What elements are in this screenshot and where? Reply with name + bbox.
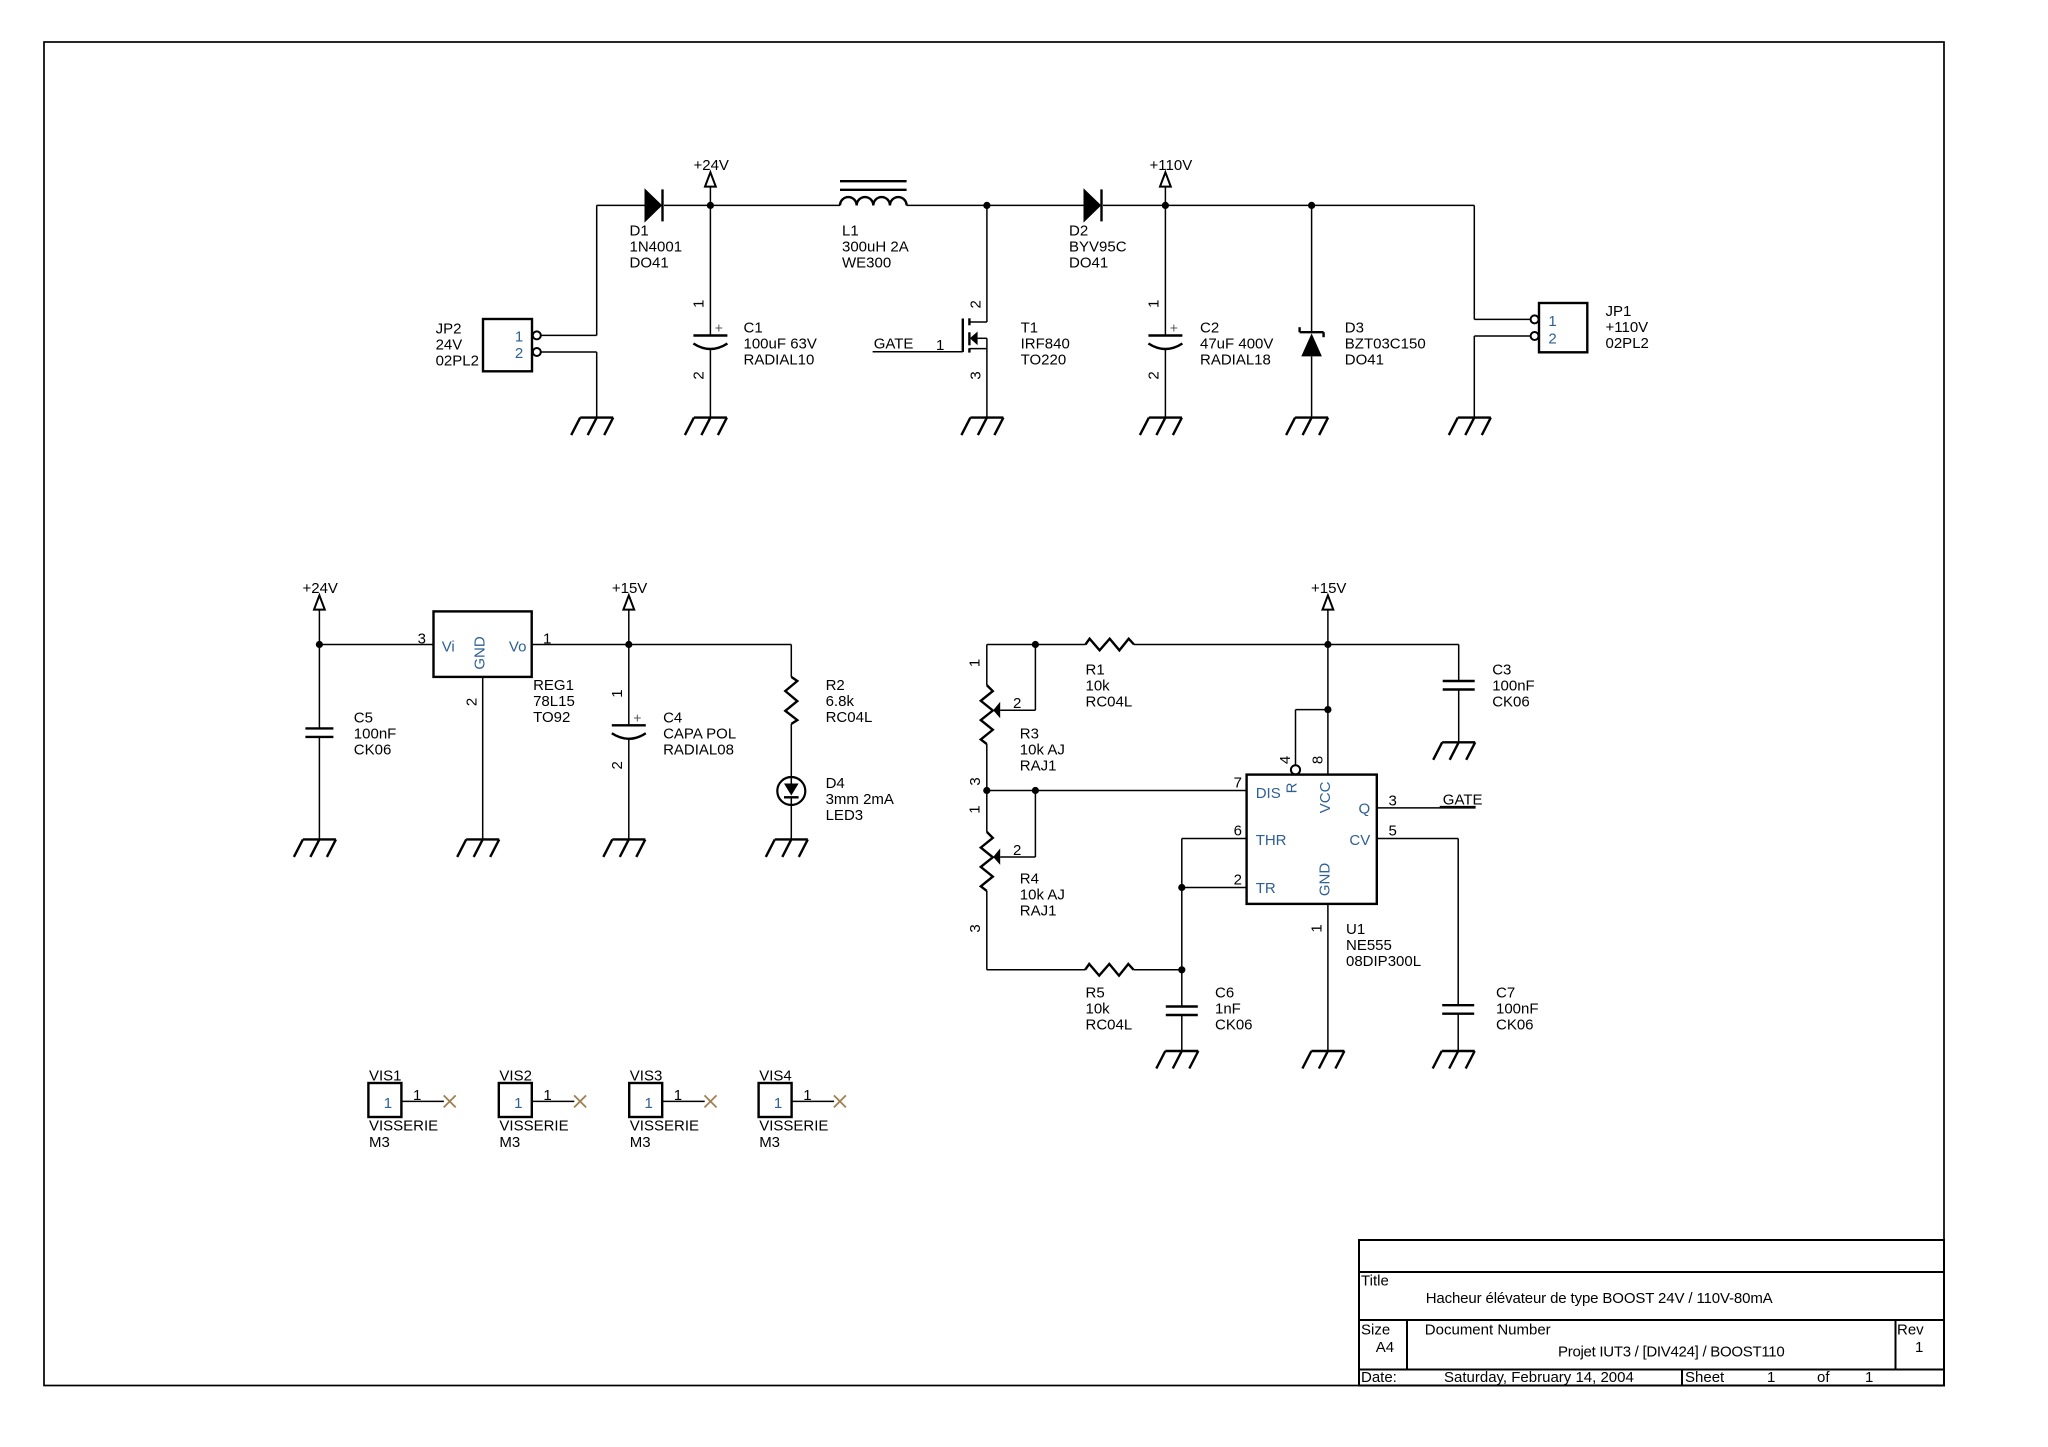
capacitor C1 — [691, 300, 728, 380]
svg-text:+24V: +24V — [302, 580, 337, 597]
wire JP2 pin2 down — [596, 352, 598, 418]
wire node to C1 — [709, 205, 711, 335]
diode D2 — [1084, 189, 1102, 221]
svg-text:NE555: NE555 — [1346, 937, 1392, 954]
wire REG1 Vo to R2 — [532, 644, 792, 646]
wire U1 GND pin1 — [1327, 904, 1329, 1051]
ground C5 — [294, 839, 336, 857]
resistor R5 — [1085, 964, 1134, 976]
wire C2 to ground — [1164, 349, 1166, 418]
svg-text:24V: 24V — [436, 337, 463, 354]
capacitor C6 — [1166, 1007, 1198, 1016]
wire source to ground — [986, 338, 988, 417]
capacitor C3 — [1443, 681, 1475, 690]
label C5 value — [354, 710, 397, 759]
svg-text:1: 1 — [936, 337, 944, 354]
wire R3 pin1 lead — [986, 645, 988, 686]
svg-text:M3: M3 — [630, 1134, 651, 1151]
svg-text:1N4001: 1N4001 — [630, 238, 683, 255]
svg-text:Hacheur élévateur de type BOOS: Hacheur élévateur de type BOOST 24V / 11… — [1426, 1290, 1773, 1307]
svg-text:2: 2 — [1146, 371, 1163, 379]
title block texts — [1361, 1273, 1924, 1386]
svg-text:6: 6 — [1234, 823, 1242, 840]
svg-text:JP2: JP2 — [436, 321, 462, 338]
svg-text:2: 2 — [609, 761, 626, 769]
wire TR pin2 — [1182, 887, 1247, 889]
svg-text:10k: 10k — [1086, 678, 1111, 695]
ground C2 — [1140, 418, 1182, 436]
wire node to C4 — [628, 645, 630, 726]
label D1 value — [630, 222, 683, 271]
svg-text:2: 2 — [464, 698, 481, 706]
label C2 value — [1200, 320, 1273, 369]
svg-text:C5: C5 — [354, 710, 373, 727]
svg-text:JP1: JP1 — [1606, 303, 1632, 320]
regulator REG1 port names — [442, 636, 527, 670]
junction T1 drain node — [983, 202, 990, 209]
svg-text:C1: C1 — [744, 320, 763, 337]
svg-text:2: 2 — [691, 371, 708, 379]
wire VCC pin8 — [1327, 645, 1329, 775]
ground C3 — [1433, 742, 1475, 760]
wire C1 to ground — [709, 349, 711, 418]
svg-text:VISSERIE: VISSERIE — [759, 1118, 828, 1135]
svg-text:TO92: TO92 — [533, 709, 570, 726]
svg-text:Vo: Vo — [509, 639, 527, 656]
wire R4 pin3 lead — [986, 891, 988, 970]
power +24V mid — [302, 580, 337, 644]
svg-text:U1: U1 — [1346, 921, 1365, 938]
diode D1 — [645, 189, 663, 221]
ic U1 pin4 reset — [1291, 710, 1328, 775]
junction C5 node — [316, 641, 323, 648]
svg-text:VCC: VCC — [1317, 781, 1334, 813]
label D4 value — [826, 775, 894, 824]
svg-text:A4: A4 — [1376, 1339, 1394, 1356]
ic U1 port names — [1256, 781, 1371, 897]
svg-text:1: 1 — [1915, 1339, 1923, 1356]
potentiometer R3 pin numbers — [966, 659, 1021, 786]
svg-text:GND: GND — [1317, 863, 1334, 897]
label C6 value — [1215, 985, 1253, 1034]
svg-text:Vi: Vi — [442, 639, 455, 656]
junction TR node — [1178, 884, 1185, 891]
svg-text:+: + — [715, 320, 723, 336]
wire JP1 pin2 to ground — [1473, 336, 1475, 418]
svg-text:100uF 63V: 100uF 63V — [744, 336, 817, 353]
svg-text:1: 1 — [1309, 924, 1326, 932]
svg-text:1: 1 — [966, 805, 983, 813]
svg-text:R3: R3 — [1020, 726, 1039, 743]
junction D3 node — [1308, 202, 1315, 209]
svg-text:1: 1 — [413, 1087, 421, 1104]
wire to REG1 Vi — [319, 644, 433, 646]
title block frame — [1359, 1240, 1944, 1386]
label R1 value — [1086, 662, 1133, 711]
svg-text:78L15: 78L15 — [533, 693, 575, 710]
svg-text:M3: M3 — [759, 1134, 780, 1151]
svg-text:1: 1 — [1548, 313, 1556, 330]
led D4 — [777, 777, 805, 805]
svg-text:1: 1 — [543, 1087, 551, 1104]
net label GATE right — [1440, 792, 1483, 809]
svg-text:5: 5 — [1389, 823, 1397, 840]
wire to R2 — [790, 645, 792, 677]
svg-text:Title: Title — [1361, 1273, 1389, 1290]
wire R3 pin3 lead — [986, 744, 988, 790]
wire node to C5 — [318, 645, 320, 729]
label C1 value — [744, 320, 817, 369]
svg-text:10k AJ: 10k AJ — [1020, 887, 1065, 904]
svg-text:C3: C3 — [1492, 662, 1511, 679]
svg-text:1: 1 — [609, 689, 626, 697]
wire C7 to ground — [1457, 1014, 1459, 1051]
ic U1 NE555 box — [1247, 775, 1377, 904]
svg-text:+15V: +15V — [1311, 580, 1346, 597]
wire JP2 pin2 — [541, 351, 597, 353]
svg-text:02PL2: 02PL2 — [436, 353, 479, 370]
svg-text:C7: C7 — [1496, 985, 1515, 1002]
wire node to D3 — [1311, 205, 1313, 332]
svg-text:LED3: LED3 — [826, 807, 864, 824]
svg-text:1nF: 1nF — [1215, 1001, 1241, 1018]
ground JP2 — [571, 418, 613, 436]
svg-text:3: 3 — [968, 371, 985, 379]
svg-text:1: 1 — [674, 1087, 682, 1104]
svg-text:of: of — [1817, 1369, 1830, 1386]
regulator REG1 pin numbers — [418, 631, 552, 707]
svg-text:47uF 400V: 47uF 400V — [1200, 336, 1273, 353]
svg-text:02PL2: 02PL2 — [1606, 335, 1649, 352]
wire C4 to ground — [628, 738, 630, 839]
regulator REG1 box — [434, 611, 532, 677]
label JP2 value — [436, 321, 479, 370]
svg-text:Rev: Rev — [1897, 1322, 1924, 1339]
screw VIS2 — [499, 1068, 586, 1151]
ground REG1 — [457, 839, 499, 857]
svg-text:3: 3 — [967, 777, 984, 785]
svg-text:DO41: DO41 — [630, 254, 669, 271]
svg-text:1: 1 — [514, 1095, 522, 1112]
junction R4 wiper node — [1032, 787, 1039, 794]
label D2 value — [1069, 222, 1127, 271]
wire down to C3 — [1458, 645, 1460, 682]
wire up to input rail — [596, 205, 598, 335]
wire R4 pin1 lead — [986, 791, 988, 832]
svg-text:DO41: DO41 — [1069, 254, 1108, 271]
label T1 value — [1021, 320, 1070, 369]
svg-text:WE300: WE300 — [842, 254, 891, 271]
svg-text:2: 2 — [968, 300, 985, 308]
svg-text:+: + — [1170, 320, 1178, 336]
junction R5-C6 node — [1178, 966, 1185, 973]
wire CV pin5 — [1377, 838, 1458, 840]
ground U1 — [1302, 1051, 1344, 1069]
svg-text:VISSERIE: VISSERIE — [630, 1118, 699, 1135]
label C7 value — [1496, 985, 1539, 1034]
potentiometer R4 — [981, 832, 993, 891]
resistor R2 — [785, 677, 797, 724]
junction +24V node — [707, 202, 714, 209]
svg-text:3: 3 — [967, 924, 984, 932]
svg-text:8: 8 — [1310, 756, 1327, 764]
transistor T1 — [963, 318, 987, 352]
svg-text:D1: D1 — [630, 222, 649, 239]
junction +110V node — [1162, 202, 1169, 209]
power +24V top — [693, 157, 728, 205]
svg-text:DIS: DIS — [1256, 785, 1281, 802]
svg-text:R2: R2 — [826, 677, 845, 694]
svg-text:R5: R5 — [1086, 985, 1105, 1002]
wire D1 to L1 — [664, 204, 840, 206]
svg-text:CK06: CK06 — [1496, 1017, 1534, 1034]
screw VIS1 — [368, 1068, 455, 1151]
svg-text:08DIP300L: 08DIP300L — [1346, 953, 1421, 970]
svg-text:C6: C6 — [1215, 985, 1234, 1002]
svg-text:CK06: CK06 — [1215, 1017, 1253, 1034]
svg-text:3mm 2mA: 3mm 2mA — [826, 791, 894, 808]
ic U1 pin numbers — [1234, 756, 1397, 933]
svg-text:6.8k: 6.8k — [826, 693, 855, 710]
svg-text:Size: Size — [1361, 1322, 1390, 1339]
svg-text:TR: TR — [1256, 880, 1276, 897]
svg-text:+24V: +24V — [693, 157, 728, 174]
svg-text:Document Number: Document Number — [1425, 1322, 1551, 1339]
label REG1 value — [533, 677, 575, 726]
svg-text:+110V: +110V — [1606, 319, 1649, 336]
connector JP2 pin numbers — [515, 329, 523, 363]
transistor T1 pin numbers — [968, 300, 985, 380]
svg-text:CV: CV — [1349, 832, 1370, 849]
wire C5 to ground — [318, 737, 320, 839]
svg-text:VISSERIE: VISSERIE — [499, 1118, 568, 1135]
svg-text:R1: R1 — [1086, 662, 1105, 679]
svg-text:C2: C2 — [1200, 320, 1219, 337]
power +15V mid — [612, 580, 647, 644]
svg-text:M3: M3 — [499, 1134, 520, 1151]
wire THR down to TR node — [1181, 839, 1183, 970]
wire DIS net — [987, 790, 1247, 792]
svg-text:2: 2 — [515, 345, 523, 362]
svg-text:D3: D3 — [1345, 320, 1364, 337]
ground C6 — [1156, 1051, 1198, 1069]
wire D2 to JP1 corner — [1103, 204, 1474, 206]
potentiometer R3 — [981, 685, 993, 744]
resistor R1 — [1086, 639, 1135, 651]
svg-text:RC04L: RC04L — [826, 709, 873, 726]
svg-text:10k: 10k — [1086, 1001, 1111, 1018]
svg-text:D4: D4 — [826, 775, 845, 792]
svg-text:10k AJ: 10k AJ — [1020, 742, 1065, 759]
capacitor C7 — [1442, 1005, 1474, 1014]
svg-text:1: 1 — [384, 1095, 392, 1112]
svg-text:+15V: +15V — [612, 580, 647, 597]
junction pin4-VCC node — [1324, 706, 1331, 713]
wire R2 to D4 — [790, 724, 792, 777]
svg-text:7: 7 — [1234, 775, 1242, 792]
wire JP1 pin2 — [1474, 335, 1530, 337]
svg-text:300uH 2A: 300uH 2A — [842, 238, 909, 255]
wire R1 to C3 corner — [1134, 644, 1459, 646]
junction +15V node — [625, 641, 632, 648]
svg-text:3: 3 — [1389, 793, 1397, 810]
wire C3 to ground — [1458, 690, 1460, 742]
ground T1 — [961, 418, 1003, 436]
svg-text:C4: C4 — [663, 710, 682, 727]
screw VIS3 — [629, 1068, 716, 1151]
svg-text:Sheet: Sheet — [1685, 1369, 1725, 1386]
svg-text:100nF: 100nF — [1492, 678, 1535, 695]
capacitor C5 — [305, 728, 333, 737]
wire node to C2 — [1164, 205, 1166, 335]
wire Q pin3 output — [1377, 807, 1476, 809]
svg-text:1: 1 — [515, 329, 523, 346]
svg-text:CAPA POL: CAPA POL — [663, 726, 736, 743]
svg-text:Projet IUT3 / [DIV424] / BOOST: Projet IUT3 / [DIV424] / BOOST110 — [1558, 1344, 1784, 1361]
svg-text:1: 1 — [1865, 1369, 1873, 1386]
wire JP2 pin1 to node — [541, 334, 597, 336]
connector JP2 box — [483, 319, 541, 371]
svg-text:2: 2 — [1013, 695, 1021, 712]
label C3 value — [1492, 662, 1535, 711]
svg-text:BZT03C150: BZT03C150 — [1345, 336, 1426, 353]
wire rail down to JP1 pin1 — [1473, 205, 1475, 319]
svg-text:RADIAL10: RADIAL10 — [744, 352, 815, 369]
svg-text:GND: GND — [471, 636, 488, 670]
junction R3 wiper node — [1032, 641, 1039, 648]
svg-text:RADIAL08: RADIAL08 — [663, 742, 734, 759]
label R3 value — [1020, 726, 1065, 775]
svg-text:1: 1 — [774, 1095, 782, 1112]
potentiometer R3 wiper — [993, 645, 1035, 719]
svg-text:CK06: CK06 — [354, 742, 392, 759]
wire THR pin6 — [1182, 838, 1247, 840]
wire D3 to ground — [1311, 356, 1313, 417]
potentiometer R4 wiper — [993, 791, 1035, 865]
svg-text:Q: Q — [1359, 801, 1371, 818]
svg-text:TO220: TO220 — [1021, 352, 1067, 369]
svg-text:1: 1 — [645, 1095, 653, 1112]
svg-text:T1: T1 — [1021, 320, 1039, 337]
wire rail to D1 anode — [597, 204, 645, 206]
svg-text:GATE: GATE — [874, 336, 914, 353]
wire drain — [986, 205, 988, 322]
ground JP1 — [1449, 418, 1491, 436]
svg-text:M3: M3 — [369, 1134, 390, 1151]
screw VIS4 — [759, 1068, 846, 1151]
svg-text:L1: L1 — [842, 222, 859, 239]
wire to JP1 pin1 — [1474, 318, 1530, 320]
svg-text:DO41: DO41 — [1345, 352, 1384, 369]
wire R4 to R5 — [987, 969, 1085, 971]
label JP1 value — [1606, 303, 1649, 352]
svg-text:100nF: 100nF — [354, 726, 397, 743]
ground D3 — [1286, 418, 1328, 436]
svg-text:IRF840: IRF840 — [1021, 336, 1070, 353]
capacitor C4 — [609, 689, 646, 769]
junction R3-R4-DIS node — [983, 787, 990, 794]
label D3 value — [1345, 320, 1426, 369]
svg-text:1: 1 — [966, 659, 983, 667]
ground C1 — [685, 418, 727, 436]
svg-text:2: 2 — [1548, 331, 1556, 348]
connector JP1 box — [1531, 303, 1588, 352]
inductor L1 — [840, 181, 907, 205]
svg-text:RAJ1: RAJ1 — [1020, 903, 1057, 920]
svg-text:REG1: REG1 — [533, 677, 574, 694]
svg-text:RADIAL18: RADIAL18 — [1200, 352, 1271, 369]
svg-text:THR: THR — [1256, 832, 1287, 849]
svg-text:1: 1 — [1767, 1369, 1775, 1386]
svg-text:4: 4 — [1277, 756, 1294, 764]
svg-text:D2: D2 — [1069, 222, 1088, 239]
svg-text:+110V: +110V — [1150, 157, 1193, 174]
svg-text:2: 2 — [1013, 842, 1021, 859]
svg-text:+: + — [633, 709, 641, 725]
label C4 value — [663, 710, 736, 759]
ground C4 — [603, 839, 645, 857]
svg-text:1: 1 — [803, 1087, 811, 1104]
label R4 value — [1020, 871, 1065, 920]
svg-text:1: 1 — [1146, 300, 1163, 308]
capacitor C2 — [1146, 300, 1183, 380]
svg-text:2: 2 — [1234, 872, 1242, 889]
power +15V 555 — [1311, 580, 1346, 644]
power +110V — [1150, 157, 1193, 205]
label R5 value — [1086, 985, 1133, 1034]
wire D4 to ground — [790, 805, 792, 839]
ground D4 — [766, 839, 808, 857]
ground C7 — [1433, 1051, 1475, 1069]
wire REG1 GND down — [482, 677, 484, 840]
potentiometer R4 pin numbers — [966, 805, 1021, 932]
label R2 value — [826, 677, 873, 726]
svg-text:RC04L: RC04L — [1086, 694, 1133, 711]
label U1 value — [1346, 921, 1421, 970]
svg-text:1: 1 — [691, 300, 708, 308]
svg-text:Date:: Date: — [1361, 1369, 1397, 1386]
transistor T1 gate net label GATE — [873, 336, 963, 354]
svg-text:RC04L: RC04L — [1086, 1017, 1133, 1034]
svg-text:RAJ1: RAJ1 — [1020, 758, 1057, 775]
svg-text:3: 3 — [418, 631, 426, 648]
wire R3 top to R1 — [987, 644, 1086, 646]
label L1 value — [842, 222, 909, 271]
junction VCC node — [1324, 641, 1331, 648]
svg-text:CK06: CK06 — [1492, 694, 1530, 711]
wire down to C7 — [1457, 839, 1459, 1006]
svg-text:R4: R4 — [1020, 871, 1039, 888]
svg-text:BYV95C: BYV95C — [1069, 238, 1127, 255]
wire L1 to D2 — [907, 204, 1084, 206]
connector JP1 pin numbers — [1548, 313, 1556, 348]
wire node to C6 — [1181, 970, 1183, 1007]
svg-text:R: R — [1283, 782, 1300, 793]
diode D3 zener — [1300, 327, 1324, 356]
svg-text:100nF: 100nF — [1496, 1001, 1539, 1018]
wire C6 to ground — [1181, 1016, 1183, 1052]
svg-text:Saturday, February 14, 2004: Saturday, February 14, 2004 — [1444, 1369, 1634, 1386]
wire R5 to TR node — [1134, 969, 1182, 971]
svg-text:VISSERIE: VISSERIE — [369, 1118, 438, 1135]
